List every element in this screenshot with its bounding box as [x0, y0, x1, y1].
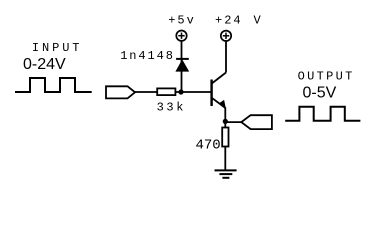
svg-text:33k: 33k	[157, 101, 186, 115]
wire emitter to node	[224, 108, 226, 122]
+5V supply symbol	[176, 31, 186, 41]
input connector	[106, 86, 135, 98]
svg-text:0-24V: 0-24V	[23, 56, 66, 73]
diode D1 1n4148	[175, 41, 189, 92]
svg-text:470: 470	[196, 138, 221, 154]
svg-text:0-5V: 0-5V	[303, 85, 337, 102]
resistor R2 470	[222, 128, 228, 147]
svg-text:V: V	[254, 13, 263, 27]
wire +24V to collector	[225, 41, 227, 72]
svg-text:+24: +24	[215, 13, 243, 27]
input waveform	[15, 78, 92, 92]
svg-text:1n4148: 1n4148	[120, 49, 175, 63]
wire resistor to transistor base	[175, 91, 211, 93]
svg-text:INPUT: INPUT	[32, 41, 83, 55]
wire resistor to ground	[224, 147, 226, 171]
transistor Q1	[212, 73, 226, 109]
svg-text:OUTPUT: OUTPUT	[298, 69, 355, 83]
output waveform	[285, 107, 360, 121]
wire connector to resistor	[135, 91, 157, 93]
node junction dot	[178, 89, 183, 94]
wire node to resistor	[224, 121, 226, 127]
+24V supply symbol	[221, 31, 231, 41]
resistor R1 33k	[157, 88, 175, 95]
node junction dot emitter	[223, 119, 228, 124]
wire node to output connector	[225, 121, 241, 123]
ground symbol	[215, 170, 237, 177]
svg-text:+5v: +5v	[168, 13, 196, 27]
output connector	[241, 115, 272, 129]
